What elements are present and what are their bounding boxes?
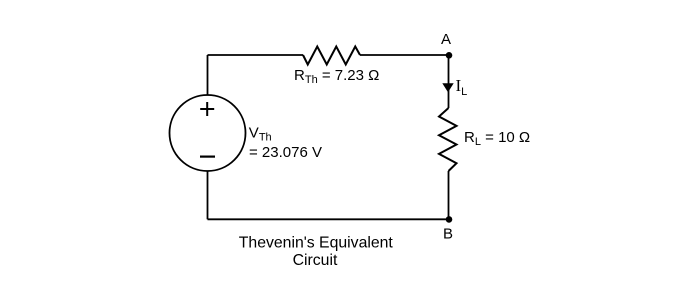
voltage source U1 (circle): [170, 95, 246, 171]
current arrow I_L (arrowhead): [442, 83, 453, 92]
wire: top rail right segment: [360, 54, 449, 56]
svg-text:Circuit: Circuit: [293, 252, 338, 269]
node A (junction dot): [446, 52, 453, 59]
wire: bottom rail: [208, 218, 449, 220]
minus sign inside source: [200, 156, 215, 158]
wire: source top to top-left corner: [207, 55, 209, 95]
svg-text:IL: IL: [456, 76, 468, 98]
plus sign inside source: [200, 102, 214, 116]
svg-text:A: A: [441, 31, 451, 48]
svg-text:VTh: VTh: [249, 125, 272, 144]
svg-text:= 23.076 V: = 23.076 V: [249, 144, 322, 161]
wire: node A down to load resistor: [448, 55, 450, 108]
node B (junction dot): [446, 216, 453, 223]
wire: top rail left segment: [208, 54, 304, 56]
svg-text:RL = 10 Ω: RL = 10 Ω: [464, 129, 530, 148]
resistor R2 (R_L zigzag): [439, 108, 457, 171]
wire: load resistor to node B: [448, 171, 450, 219]
svg-text:RTh = 7.23 Ω: RTh = 7.23 Ω: [294, 67, 379, 86]
wire: bottom-left corner up to source bottom: [207, 171, 209, 219]
svg-text:Thevenin's Equivalent: Thevenin's Equivalent: [239, 235, 394, 252]
resistor R1 (R_Th zigzag): [303, 47, 360, 65]
svg-text:B: B: [443, 226, 453, 243]
